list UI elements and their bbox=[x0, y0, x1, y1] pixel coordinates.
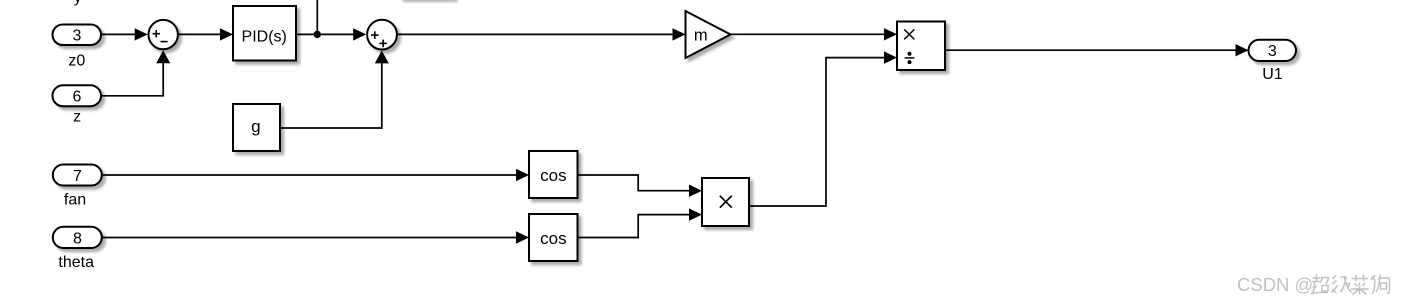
inport 3 (z0) bbox=[53, 25, 102, 46]
wire PID to sum2 bbox=[296, 28, 366, 40]
wire cos2 to product bbox=[578, 208, 703, 237]
watermark CSDN bbox=[1237, 274, 1313, 295]
svg-text:theta: theta bbox=[58, 254, 94, 271]
svg-text:PID(s): PID(s) bbox=[242, 28, 287, 45]
svg-text:3: 3 bbox=[1268, 43, 1277, 60]
constant block g bbox=[233, 104, 280, 151]
svg-text:y: y bbox=[74, 0, 82, 6]
sum1 minus sign bbox=[161, 41, 168, 43]
cos block 1 bbox=[529, 151, 578, 198]
inport 8 (theta) bbox=[53, 227, 102, 248]
watermark hanzi gou bbox=[1371, 275, 1390, 295]
wire cos1 to product bbox=[578, 175, 703, 197]
svg-text:fan: fan bbox=[64, 191, 86, 208]
svg-text:CSDN @: CSDN @ bbox=[1237, 274, 1313, 295]
svg-text:g: g bbox=[251, 117, 260, 136]
svg-text:8: 8 bbox=[73, 230, 82, 247]
sum2 plus sign 2 bbox=[379, 40, 387, 48]
svg-text:z0: z0 bbox=[68, 52, 85, 69]
gain block m (triangle) bbox=[686, 11, 731, 58]
divide block bbox=[897, 22, 945, 71]
junction dot bbox=[314, 31, 321, 38]
wire theta to cos2 bbox=[102, 231, 529, 243]
label z bbox=[73, 109, 81, 126]
svg-text:cos: cos bbox=[540, 166, 566, 185]
watermark hanzi cai bbox=[1351, 275, 1369, 295]
sum1 plus sign bbox=[153, 30, 161, 38]
label fan bbox=[64, 191, 86, 208]
wire sum1 to PID bbox=[178, 28, 233, 40]
partial label y (cut off at top) bbox=[74, 0, 82, 6]
product block bbox=[702, 178, 749, 226]
wire g to sum2 (right then up) bbox=[280, 51, 389, 129]
inport 6 (z) bbox=[53, 85, 102, 106]
label z0 bbox=[68, 52, 85, 69]
divide x symbol bbox=[904, 29, 914, 39]
wire z to sum1 (up) bbox=[101, 50, 170, 96]
outport 3 (U1) bbox=[1249, 40, 1297, 61]
svg-text:U1: U1 bbox=[1262, 66, 1283, 83]
svg-text:z: z bbox=[73, 109, 81, 126]
cos block 2 bbox=[529, 214, 578, 261]
wire m to divide (x input) bbox=[731, 28, 898, 40]
svg-text:cos: cos bbox=[540, 229, 566, 248]
wire fan to cos1 bbox=[102, 169, 529, 181]
product x symbol bbox=[720, 196, 732, 208]
svg-text:3: 3 bbox=[72, 28, 81, 45]
wire sum2 to gain m bbox=[397, 28, 686, 40]
sum2 plus sign 1 bbox=[371, 31, 379, 39]
wire z0 to sum1 bbox=[101, 28, 148, 40]
divide divide symbol bbox=[905, 52, 915, 64]
watermark hanzi chao bbox=[1311, 275, 1329, 295]
branch wire up from junction bbox=[316, 0, 318, 34]
svg-text:7: 7 bbox=[73, 168, 82, 185]
svg-text:m: m bbox=[694, 27, 708, 45]
label U1 bbox=[1262, 66, 1283, 83]
svg-text:6: 6 bbox=[72, 89, 81, 106]
wire divide to outport bbox=[945, 44, 1249, 56]
wire product to divide (second input) bbox=[749, 51, 897, 206]
watermark hanzi ji bbox=[1332, 276, 1353, 294]
sum block 1 bbox=[149, 20, 178, 49]
label theta bbox=[58, 254, 94, 271]
inport 7 (fan) bbox=[53, 165, 102, 186]
shadow remnant of cut-off block at top bbox=[402, 0, 458, 2]
sum block 2 bbox=[367, 20, 397, 50]
PID block bbox=[233, 6, 296, 61]
